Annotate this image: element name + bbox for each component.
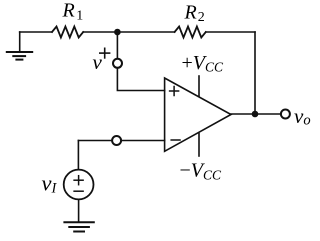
-VCC pin (198, 134, 200, 157)
node output junction dot (252, 111, 259, 118)
svg-text:−VCC: −VCC (180, 160, 223, 183)
wire inverting input (78, 140, 111, 142)
svg-text:R1: R1 (62, 0, 84, 23)
voltage source vI circle (64, 170, 94, 200)
voltage source - sign (74, 190, 83, 192)
svg-text:vI: vI (42, 171, 58, 197)
svg-text:vo: vo (294, 104, 311, 129)
wire R2 to feedback corner (206, 31, 255, 33)
op-amp + input sign (170, 87, 179, 96)
wire down to source vI (77, 141, 79, 170)
op-amp - input sign (171, 139, 180, 141)
terminal v+ (open circle) (113, 59, 122, 68)
wire v+ terminal to op-amp + input (117, 68, 164, 90)
ground (top left) (7, 32, 32, 60)
wire node A down to v+ terminal (116, 32, 118, 58)
svg-text:+VCC: +VCC (182, 52, 225, 75)
wire feedback vertical (254, 32, 256, 114)
wire ground to R1 (20, 31, 52, 33)
wire op-amp output (231, 113, 281, 115)
voltage source + sign (74, 176, 83, 185)
ground (bottom) (64, 222, 93, 231)
terminal vo (open circle) (281, 110, 290, 119)
+VCC pin (198, 76, 200, 96)
resistor R1 (52, 27, 83, 38)
label v+ superscript plus (99, 48, 110, 59)
wire R1 to node A (83, 31, 174, 33)
wire source to ground (78, 199, 80, 221)
node A junction dot (114, 29, 121, 36)
svg-text:R2: R2 (184, 1, 205, 25)
resistor R2 (175, 27, 206, 38)
wire terminal to op-amp - input (122, 140, 165, 142)
op-amp U1 triangle (165, 78, 231, 151)
terminal on inverting input (open circle) (112, 136, 121, 145)
